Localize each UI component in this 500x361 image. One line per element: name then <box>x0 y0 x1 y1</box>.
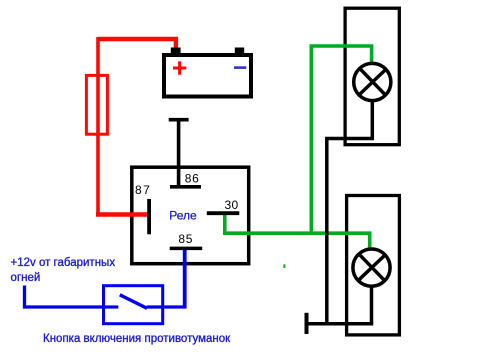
label +12v от габаритных огней <box>11 257 116 284</box>
top lamp housing <box>345 8 399 145</box>
wire black: top lamp return down to ground rail <box>327 101 373 324</box>
switch left contact stub <box>103 305 118 308</box>
switch box <box>104 286 163 324</box>
wire red: fuse bottom to relay pin 87 <box>96 212 149 216</box>
battery minus label <box>234 66 246 69</box>
relay pin 85 contact bar <box>170 247 203 251</box>
wire green: branch up to top lamp <box>311 46 371 234</box>
lamp L2 (bottom) <box>353 249 390 286</box>
wire black: common return to ground terminal <box>306 322 373 326</box>
switch right contact stub <box>147 305 187 308</box>
fuse F1 <box>86 75 107 134</box>
wire green: relay pin 30 down and right to bottom lamp <box>225 215 370 248</box>
wire blue: +12v feed to switch <box>25 286 104 308</box>
svg-text:30: 30 <box>225 198 239 212</box>
battery positive terminal <box>171 48 181 54</box>
wire red: vertical through fuse <box>96 37 100 215</box>
relay body <box>132 167 249 264</box>
svg-text:огней: огней <box>11 272 41 284</box>
svg-text:Реле: Реле <box>169 208 197 222</box>
relay pin 86 external terminal cap <box>169 118 189 122</box>
wire red: battery plus to fuse top <box>98 39 176 49</box>
svg-text:86: 86 <box>185 172 200 186</box>
green paint speck <box>283 264 285 268</box>
svg-text:87: 87 <box>135 183 151 197</box>
svg-text:85: 85 <box>178 232 193 246</box>
wire blue: switch up to relay pin 85 <box>183 250 187 309</box>
lamp L1 (top) <box>354 63 391 100</box>
ground terminal cap <box>305 313 309 334</box>
bottom lamp housing <box>347 196 400 335</box>
battery plus label <box>173 61 186 74</box>
relay pin 86 post wire <box>177 119 181 187</box>
relay pin 30 contact bar <box>207 211 240 215</box>
battery negative terminal <box>235 48 244 54</box>
switch blade <box>120 295 147 309</box>
battery body <box>164 55 251 97</box>
svg-text:+12v от габаритных: +12v от габаритных <box>11 257 116 269</box>
relay pin 86 contact bar <box>170 185 201 189</box>
wire black: bottom lamp return <box>370 287 374 324</box>
relay pin 87 contact bar <box>147 199 151 234</box>
svg-text:Кнопка включения противотумано: Кнопка включения противотуманок <box>43 333 231 345</box>
